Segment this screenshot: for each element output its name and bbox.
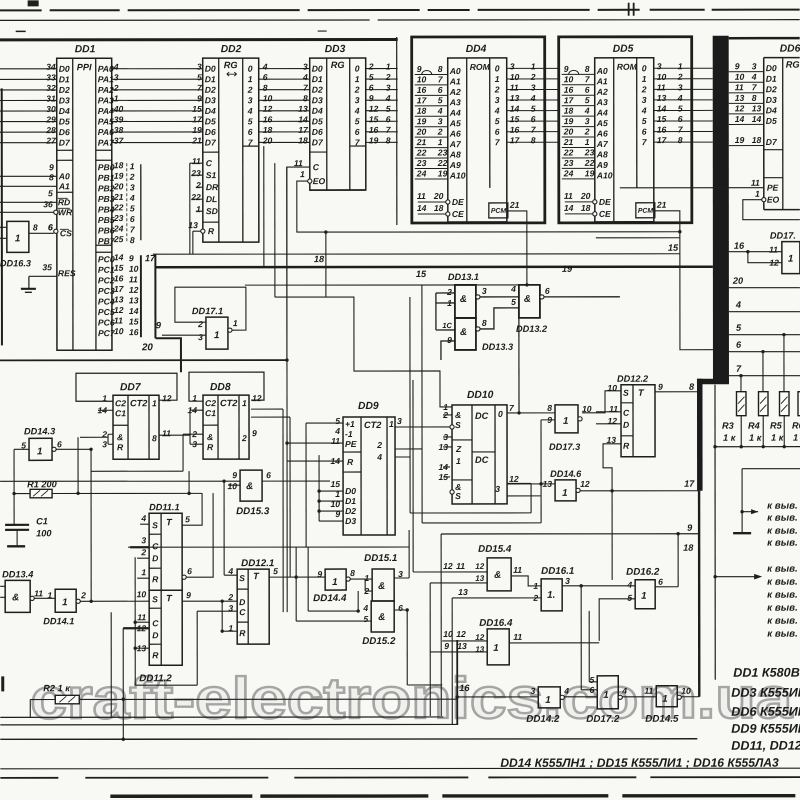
svg-text:6: 6 <box>263 72 268 82</box>
ground - C1 ground <box>7 545 25 547</box>
svg-text:S1: S1 <box>206 170 217 180</box>
wire - net 18 long line <box>153 254 680 264</box>
svg-text:11: 11 <box>162 428 171 438</box>
svg-text:1: 1 <box>562 488 567 499</box>
resistor R6 <box>792 312 800 443</box>
svg-text:19: 19 <box>562 264 573 274</box>
svg-text:R: R <box>239 628 246 638</box>
svg-text:9: 9 <box>156 320 162 330</box>
svg-text:DD11, DD12 К555: DD11, DD12 К555 <box>731 739 800 753</box>
wire - bus line below DD1 <box>0 359 287 361</box>
svg-text:18: 18 <box>263 125 273 135</box>
svg-text:23: 23 <box>416 158 427 168</box>
wire - net into DD15.3 <box>0 481 330 485</box>
wire - left drop verticals <box>430 534 457 725</box>
svg-text:к выв. 7: к выв. 7 <box>767 616 800 627</box>
IC U-DD15.2 AND gate <box>362 601 403 647</box>
IC U-DD16.1 gate <box>532 566 574 611</box>
svg-text:40: 40 <box>113 104 124 114</box>
svg-text:22: 22 <box>190 192 201 202</box>
svg-text:&: & <box>246 481 253 492</box>
svg-text:13: 13 <box>657 93 667 103</box>
svg-text:31: 31 <box>46 93 56 103</box>
svg-text:PCM: PCM <box>638 208 654 215</box>
svg-text:10: 10 <box>417 74 427 84</box>
IC U-DD10 decoder DC <box>438 390 518 504</box>
svg-text:3: 3 <box>130 182 135 192</box>
svg-text:DD17.2: DD17.2 <box>586 714 620 725</box>
svg-text:D3: D3 <box>345 516 356 526</box>
node - к выв labels group 2 <box>767 564 800 640</box>
svg-text:22: 22 <box>584 158 595 168</box>
svg-text:A8: A8 <box>449 150 461 160</box>
svg-text:DD17.: DD17. <box>770 231 796 241</box>
svg-text:DC: DC <box>475 455 489 465</box>
wire - left verticals to bottom rails <box>111 612 197 741</box>
svg-text:D: D <box>152 630 158 640</box>
svg-text:15: 15 <box>129 317 139 327</box>
svg-text:23: 23 <box>113 213 124 223</box>
svg-text:к выв. 4: к выв. 4 <box>767 577 800 588</box>
svg-text:18: 18 <box>434 203 444 213</box>
svg-text:9: 9 <box>369 93 374 103</box>
wire - DD7 R inputs <box>80 434 113 444</box>
svg-text:11: 11 <box>513 565 522 575</box>
wire - net 16 bottom chain <box>456 683 700 699</box>
svg-text:R2 1 к: R2 1 к <box>43 683 71 693</box>
svg-text:21: 21 <box>563 137 574 147</box>
svg-text:9: 9 <box>447 335 452 345</box>
svg-text:12: 12 <box>369 104 379 114</box>
svg-text:11: 11 <box>657 82 666 92</box>
svg-text:2: 2 <box>241 433 247 443</box>
wire - DD12.1 R input <box>220 601 237 633</box>
svg-text:к выв. 4: к выв. 4 <box>767 538 800 549</box>
svg-text:37: 37 <box>114 136 125 146</box>
svg-text:&: & <box>378 581 385 592</box>
svg-text:A10: A10 <box>449 170 466 180</box>
svg-text:C1: C1 <box>205 408 216 418</box>
wire - net 9 into DD17.1 <box>156 320 206 335</box>
IC U-DD15.4 AND gate <box>475 544 522 591</box>
svg-text:1: 1 <box>493 643 498 654</box>
svg-text:4: 4 <box>626 580 632 590</box>
wire - DD12.2 output 9 <box>655 382 697 392</box>
svg-text:3: 3 <box>141 535 146 545</box>
svg-text:1: 1 <box>196 204 201 214</box>
svg-text:D6: D6 <box>59 127 70 137</box>
wire - DD2 control stubs <box>190 163 203 254</box>
svg-text:5: 5 <box>355 116 360 126</box>
svg-text:C: C <box>239 607 246 617</box>
svg-text:18: 18 <box>314 254 325 264</box>
wire - DD10 out 7 to DD17.3 <box>507 411 555 414</box>
svg-text:13: 13 <box>298 104 308 114</box>
svg-text:1C: 1C <box>442 321 452 330</box>
svg-text:PB6: PB6 <box>98 226 115 236</box>
svg-text:SD: SD <box>206 206 218 216</box>
svg-text:27: 27 <box>45 136 57 146</box>
svg-text:DR: DR <box>206 182 219 192</box>
node - part list <box>731 666 800 753</box>
svg-text:RES: RES <box>58 268 76 278</box>
svg-text:D4: D4 <box>59 106 70 116</box>
svg-text:CS: CS <box>60 228 72 238</box>
svg-text:PC5: PC5 <box>98 307 115 317</box>
IC U-DD5 ROM <box>559 37 692 223</box>
wire - DD16.4 out <box>509 642 599 644</box>
svg-text:13: 13 <box>457 641 467 651</box>
svg-text:11: 11 <box>751 178 760 188</box>
svg-text:16: 16 <box>129 327 139 337</box>
wire - net 5 <box>729 323 800 392</box>
wire - left border <box>2 88 3 691</box>
svg-text:1: 1 <box>141 567 146 577</box>
svg-text:DD11.2: DD11.2 <box>139 673 172 684</box>
svg-text:DD4: DD4 <box>466 44 487 55</box>
svg-text:EO: EO <box>767 195 780 205</box>
svg-text:DD1: DD1 <box>75 44 96 55</box>
IC U-DD3 register RG <box>294 44 366 190</box>
svg-text:5: 5 <box>589 675 594 685</box>
svg-text:20: 20 <box>732 276 744 286</box>
IC U-DD8 counter CT2 <box>187 382 261 459</box>
svg-text:0: 0 <box>248 64 253 74</box>
svg-text:12: 12 <box>735 103 745 113</box>
svg-text:D2: D2 <box>205 85 216 95</box>
wire - DD12.2 C D inputs <box>596 412 621 424</box>
svg-text:14: 14 <box>129 306 139 316</box>
svg-text:4: 4 <box>362 603 368 613</box>
svg-text:D5: D5 <box>59 117 70 127</box>
svg-text:D1: D1 <box>205 74 216 84</box>
svg-text:34: 34 <box>46 62 56 72</box>
svg-text:D4: D4 <box>312 106 323 116</box>
svg-text:10: 10 <box>228 481 238 491</box>
wire - PC collect bus down to DD8 <box>155 254 181 372</box>
wire - DD9 D inputs stub bus <box>317 455 343 521</box>
svg-text:DD17.3: DD17.3 <box>549 442 580 452</box>
IC U-DD15.1 AND gate <box>363 553 403 601</box>
svg-text:3: 3 <box>482 286 487 296</box>
svg-text:24: 24 <box>113 224 124 234</box>
svg-text:DD14.5: DD14.5 <box>645 714 679 725</box>
svg-text:1: 1 <box>389 419 394 429</box>
bus bar (thick vertical) <box>697 36 730 697</box>
svg-text:2: 2 <box>532 593 538 603</box>
svg-text:1: 1 <box>495 74 500 84</box>
svg-text:S: S <box>455 420 461 430</box>
svg-text:13: 13 <box>475 574 484 583</box>
svg-text:11: 11 <box>417 191 426 201</box>
svg-text:A6: A6 <box>596 129 608 139</box>
svg-text:DD6: DD6 <box>780 44 800 55</box>
wire - output tap with arrow (lower) <box>713 574 762 580</box>
wire - DD14.4 input loop <box>308 547 360 613</box>
svg-text:1: 1 <box>533 581 538 591</box>
svg-text:DD14.1: DD14.1 <box>43 616 74 626</box>
svg-text:11: 11 <box>456 561 465 571</box>
svg-text:10: 10 <box>681 686 691 696</box>
wire - DD17.3 in 9 feed <box>539 420 555 523</box>
wire - CS link <box>29 229 58 233</box>
svg-text:D7: D7 <box>312 137 324 147</box>
svg-text:12: 12 <box>580 479 590 489</box>
wire - bottom scan dashes <box>0 777 800 796</box>
svg-text:9: 9 <box>658 382 663 392</box>
svg-text:3: 3 <box>585 116 590 126</box>
svg-text:R: R <box>152 650 159 660</box>
svg-text:16: 16 <box>657 125 667 135</box>
svg-text:DD10: DD10 <box>467 390 494 401</box>
svg-text:6: 6 <box>130 214 135 224</box>
svg-text:A9: A9 <box>596 160 608 170</box>
svg-text:D0: D0 <box>345 486 356 496</box>
svg-text:6: 6 <box>355 127 360 137</box>
svg-text:14: 14 <box>510 104 520 114</box>
svg-text:18: 18 <box>564 106 574 116</box>
svg-text:4: 4 <box>302 72 308 82</box>
svg-text:R: R <box>117 442 124 452</box>
svg-text:D4: D4 <box>205 106 216 116</box>
svg-text:10: 10 <box>263 93 273 103</box>
svg-text:17: 17 <box>564 95 575 105</box>
svg-text:9: 9 <box>687 523 693 533</box>
svg-text:D1: D1 <box>766 74 777 84</box>
wire - RES ground branch <box>21 276 57 292</box>
svg-text:A1: A1 <box>58 181 70 191</box>
svg-text:R3: R3 <box>722 421 734 431</box>
svg-text:2: 2 <box>494 85 500 95</box>
svg-text:к выв. 3: к выв. 3 <box>767 564 800 575</box>
IC U-DD17.1 inverter <box>192 306 238 349</box>
svg-text:8: 8 <box>531 135 536 145</box>
svg-text:6: 6 <box>398 603 403 613</box>
wire - DD15.4 inputs <box>413 380 541 598</box>
svg-text:10: 10 <box>443 629 453 639</box>
svg-text:6: 6 <box>658 577 663 587</box>
svg-text:2: 2 <box>227 592 233 602</box>
svg-text:ROM: ROM <box>470 62 491 72</box>
svg-text:19: 19 <box>585 168 595 178</box>
svg-text:RD: RD <box>58 197 70 207</box>
wire - DD16.1 out to DD16.2 <box>562 584 635 587</box>
svg-text:18: 18 <box>114 160 124 170</box>
IC U-DD16.3 inverter <box>0 221 53 268</box>
svg-text:15: 15 <box>416 269 427 279</box>
svg-text:12: 12 <box>252 393 262 403</box>
svg-text:15: 15 <box>192 104 202 114</box>
svg-text:2: 2 <box>129 172 135 182</box>
svg-text:DD3: DD3 <box>325 44 346 55</box>
svg-text:10: 10 <box>510 72 520 82</box>
svg-text:3: 3 <box>386 83 391 93</box>
wire - DD14.4 out to DD15.1 <box>350 579 372 591</box>
svg-text:13: 13 <box>510 93 520 103</box>
wire - net 20 <box>729 276 800 288</box>
svg-text:5: 5 <box>248 116 253 126</box>
svg-text:6: 6 <box>495 127 500 137</box>
svg-text:21: 21 <box>191 136 202 146</box>
wire - net line y513 <box>410 512 531 514</box>
svg-text:C: C <box>206 158 213 168</box>
svg-text:4: 4 <box>385 93 391 103</box>
svg-text:5: 5 <box>185 514 190 524</box>
wire - DD8 R inputs <box>183 434 203 471</box>
svg-text:5: 5 <box>678 103 683 113</box>
svg-text:PA0: PA0 <box>98 64 114 74</box>
svg-text:RG: RG <box>224 60 238 70</box>
wire - DD7 C1 stub <box>98 409 113 411</box>
svg-text:4: 4 <box>113 62 119 72</box>
wire - net 9/18 long line <box>441 523 699 553</box>
svg-text:6: 6 <box>589 685 594 695</box>
svg-text:12: 12 <box>443 561 453 571</box>
svg-text:RG: RG <box>786 60 800 70</box>
wire - net 4 <box>729 300 800 312</box>
svg-text:24: 24 <box>416 168 427 178</box>
wire - DD2 output bus to DD3 <box>259 62 310 146</box>
svg-text:DD14.6: DD14.6 <box>550 469 582 479</box>
IC U-DD16.2 gate <box>626 567 663 609</box>
svg-text:14: 14 <box>417 203 427 213</box>
wire - DD3 C control <box>287 167 310 360</box>
wire - DD14.3 output net <box>56 437 93 603</box>
wire - net line y523 <box>422 522 541 524</box>
svg-text:CT2: CT2 <box>364 420 382 430</box>
svg-text:D5: D5 <box>205 116 216 126</box>
svg-text:22: 22 <box>113 202 124 212</box>
svg-text:1: 1 <box>585 137 590 147</box>
svg-text:3: 3 <box>495 484 500 494</box>
svg-text:D3: D3 <box>766 95 777 105</box>
svg-text:15: 15 <box>331 479 341 489</box>
svg-text:EO: EO <box>313 176 326 186</box>
svg-text:16: 16 <box>459 683 470 693</box>
svg-text:S: S <box>455 491 461 501</box>
wire - DD1 left data bus <box>0 69 58 215</box>
svg-text:8: 8 <box>33 222 38 232</box>
svg-text:5: 5 <box>511 297 516 307</box>
wire - DD4 PCM pin 21 <box>508 211 529 413</box>
svg-text:1 к: 1 к <box>749 433 763 443</box>
wire - inter-register verticals <box>264 146 275 297</box>
svg-text:DD14 К555ЛН1 ; DD15 К555ЛИ1: DD14 К555ЛН1 ; DD15 К555ЛИ1 ; DD16 К555Л… <box>500 756 779 770</box>
wire - DD15.4 out to DD16.1 <box>511 576 541 586</box>
svg-text:14: 14 <box>114 252 124 262</box>
svg-text:1: 1 <box>545 695 550 706</box>
svg-text:PA6: PA6 <box>98 127 114 137</box>
IC U-DD17.3 inverter <box>547 403 592 452</box>
svg-text:8: 8 <box>689 382 695 392</box>
svg-text:9: 9 <box>49 162 54 172</box>
svg-text:A2: A2 <box>596 87 608 97</box>
svg-text:3: 3 <box>495 95 500 105</box>
svg-text:D1: D1 <box>345 496 356 506</box>
svg-text:6: 6 <box>187 566 192 576</box>
svg-text:11: 11 <box>564 191 573 201</box>
svg-text:D7: D7 <box>766 137 778 147</box>
svg-text:11: 11 <box>331 436 340 446</box>
capacitor C1 <box>5 493 52 545</box>
svg-text:19: 19 <box>438 168 448 178</box>
svg-text:2: 2 <box>247 85 253 95</box>
wire - DD16.2 in5 feed <box>599 599 635 641</box>
svg-text:0: 0 <box>355 64 360 74</box>
svg-text:9: 9 <box>735 61 740 71</box>
svg-text:DD13.3: DD13.3 <box>482 342 513 352</box>
svg-text:5: 5 <box>386 104 391 114</box>
svg-text:PE: PE <box>345 439 357 449</box>
svg-text:A3: A3 <box>449 97 461 107</box>
svg-text:5: 5 <box>48 188 53 198</box>
wire - R1 net <box>12 449 202 495</box>
wire - DD9 inputs <box>287 423 343 461</box>
svg-text:8: 8 <box>350 568 355 578</box>
wire - net 15 line <box>245 285 519 413</box>
svg-text:&: & <box>207 432 213 442</box>
wire - bottom rail 3 <box>0 738 697 741</box>
resistor R4 <box>748 392 768 447</box>
svg-text:DD5: DD5 <box>613 44 634 55</box>
svg-text:1: 1 <box>15 233 20 244</box>
svg-text:3: 3 <box>510 61 515 71</box>
svg-text:-1: -1 <box>345 429 353 439</box>
wire - DD7 feedback loop <box>76 373 177 401</box>
wire - DD13.4 to DD14.1 <box>34 597 55 599</box>
svg-text:10: 10 <box>129 264 139 274</box>
svg-text:C1: C1 <box>115 408 126 418</box>
wire - long line y547 <box>128 530 409 578</box>
svg-text:1: 1 <box>233 318 238 328</box>
wire - net 16 to DD17.4 <box>729 241 782 263</box>
svg-text:15: 15 <box>510 114 520 124</box>
svg-text:5: 5 <box>438 95 443 105</box>
svg-text:17: 17 <box>684 479 695 489</box>
svg-text:R5: R5 <box>770 421 783 431</box>
svg-text:5: 5 <box>736 323 742 333</box>
svg-text:8: 8 <box>752 93 757 103</box>
svg-text:21: 21 <box>113 192 124 202</box>
svg-text:&: & <box>12 592 19 603</box>
svg-text:7: 7 <box>736 364 742 374</box>
svg-text:22: 22 <box>563 147 574 157</box>
svg-text:28: 28 <box>45 125 56 135</box>
svg-text:2: 2 <box>80 590 86 600</box>
wire - thick mid bus line <box>145 253 713 279</box>
svg-text:23: 23 <box>584 147 595 157</box>
svg-text:3: 3 <box>197 62 202 72</box>
wire - main top frame line <box>0 38 398 41</box>
svg-text:PC4: PC4 <box>98 296 115 306</box>
svg-text:1 к: 1 к <box>793 433 800 443</box>
svg-text:14: 14 <box>298 114 308 124</box>
svg-text:5: 5 <box>130 203 135 213</box>
svg-text:9: 9 <box>232 470 237 480</box>
wire - DD9 outputs 2 and 4 <box>395 285 422 523</box>
svg-text:к выв. 2: к выв. 2 <box>767 513 800 524</box>
svg-text:R4: R4 <box>748 421 760 431</box>
svg-text:D0: D0 <box>205 64 216 74</box>
svg-text:PA3: PA3 <box>98 95 114 105</box>
IC U-DD4 ROM <box>412 37 545 223</box>
svg-text:1: 1 <box>332 577 337 588</box>
svg-text:4: 4 <box>354 106 360 116</box>
wire - bottom border line <box>0 767 800 770</box>
svg-text:10: 10 <box>607 383 617 393</box>
svg-text:DD8: DD8 <box>210 382 231 393</box>
wire - DD15.1 out3 up <box>394 577 409 579</box>
